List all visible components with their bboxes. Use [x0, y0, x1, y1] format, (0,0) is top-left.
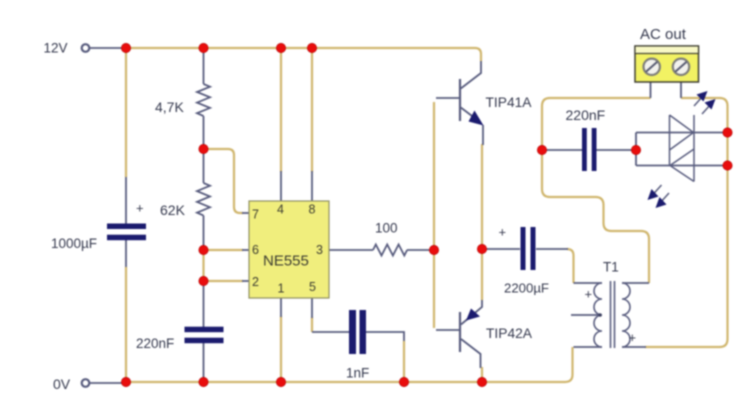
svg-text:4: 4: [277, 203, 284, 217]
svg-text:6: 6: [252, 243, 259, 257]
svg-text:+: +: [499, 225, 507, 240]
svg-text:2: 2: [252, 275, 259, 289]
svg-text:TIP41A: TIP41A: [486, 95, 533, 110]
svg-text:1: 1: [278, 282, 285, 296]
svg-text:100: 100: [375, 221, 398, 236]
svg-text:TIP42A: TIP42A: [486, 326, 533, 341]
svg-text:NE555: NE555: [263, 253, 309, 270]
svg-text:4,7K: 4,7K: [155, 99, 184, 115]
svg-text:12V: 12V: [44, 41, 68, 56]
svg-text:62K: 62K: [160, 202, 186, 218]
svg-text:0V: 0V: [53, 376, 71, 392]
svg-text:T1: T1: [603, 260, 619, 275]
svg-text:8: 8: [309, 203, 316, 217]
svg-text:1nF: 1nF: [346, 366, 369, 381]
svg-text:5: 5: [309, 280, 316, 294]
svg-text:220nF: 220nF: [566, 107, 606, 123]
svg-text:+: +: [629, 330, 637, 345]
svg-text:+: +: [585, 287, 593, 302]
svg-text:220nF: 220nF: [136, 336, 174, 351]
svg-text:3: 3: [316, 243, 323, 257]
svg-text:2200µF: 2200µF: [504, 281, 549, 296]
svg-text:1000µF: 1000µF: [51, 236, 97, 251]
svg-text:AC out: AC out: [640, 26, 687, 43]
svg-text:7: 7: [252, 208, 259, 222]
svg-text:+: +: [136, 201, 144, 216]
